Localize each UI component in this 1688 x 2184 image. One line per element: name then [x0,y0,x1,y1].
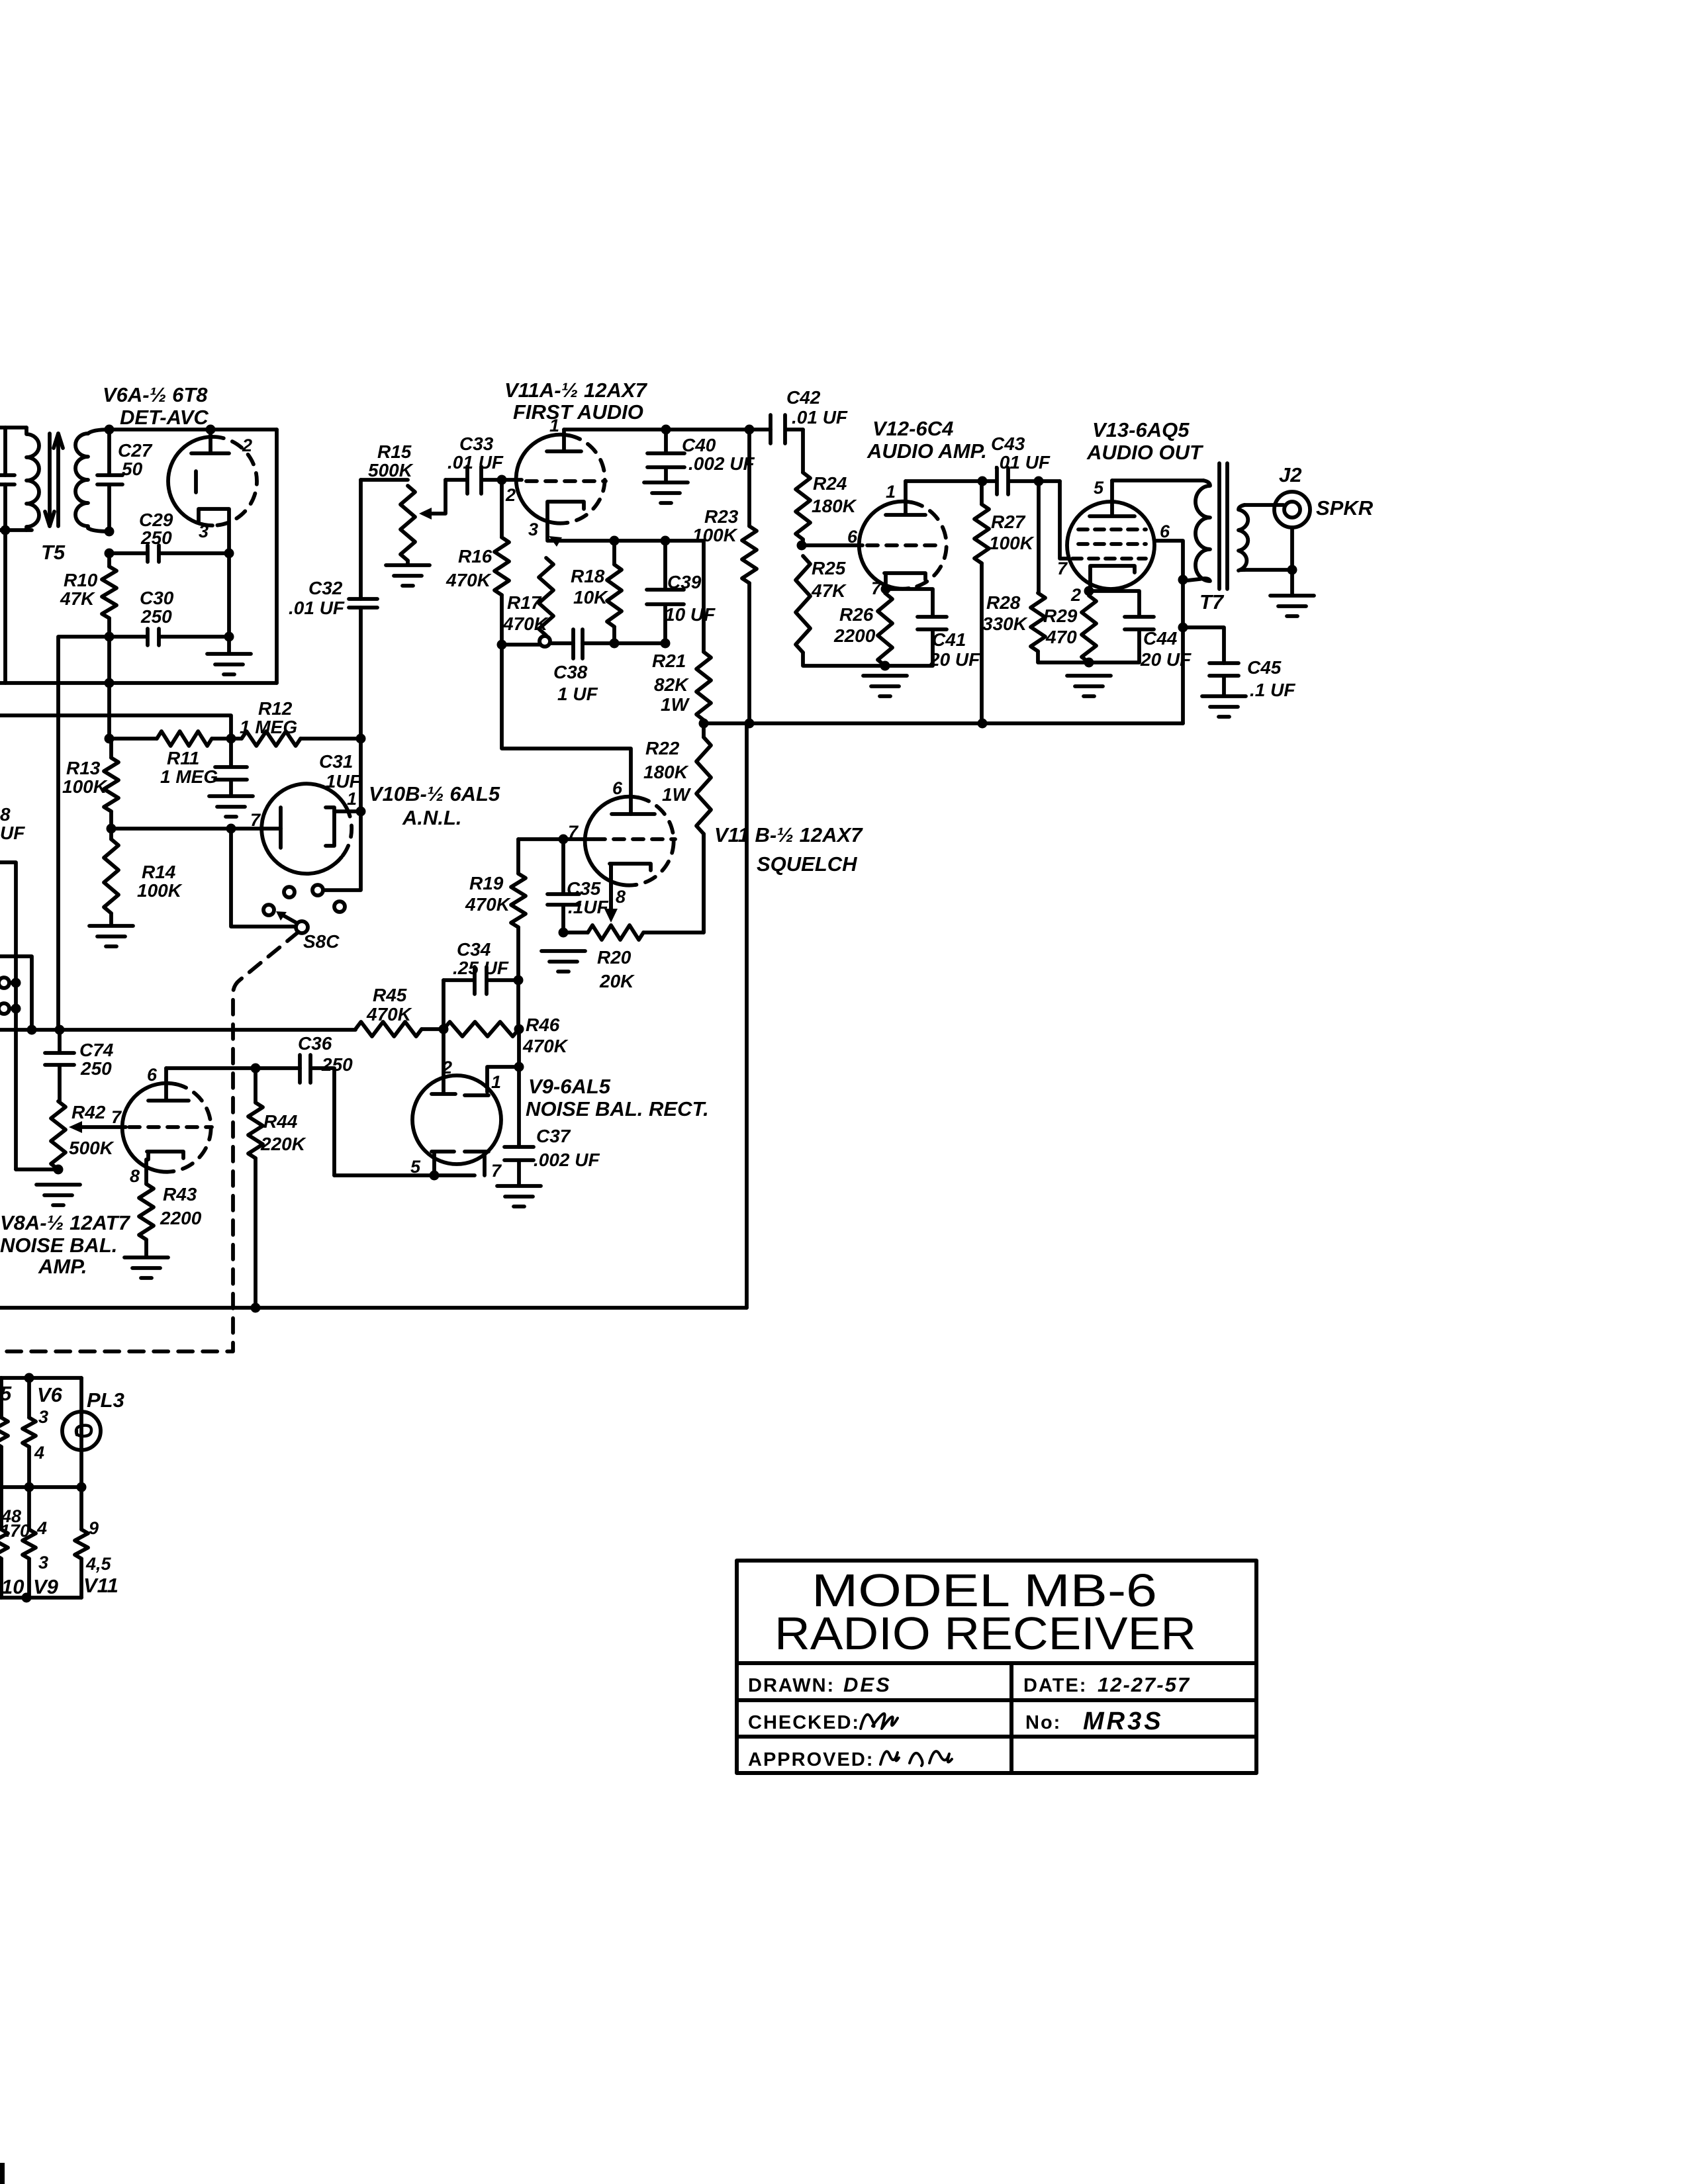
svg-text:7: 7 [1057,559,1068,578]
svg-text:1W: 1W [661,694,690,715]
svg-text:1: 1 [886,482,896,502]
wire V6A box right [275,430,279,683]
wire pin2 V9 [442,1029,445,1093]
scan mark bottom-left corner [0,2163,5,2184]
contact circle [539,636,550,647]
resistor R46 [444,1022,519,1036]
resistor R11 [109,731,242,746]
svg-text:4: 4 [34,1443,44,1463]
wire [231,829,296,927]
node [251,1064,261,1073]
svg-text:100K: 100K [989,533,1035,553]
svg-text:DET-AVC: DET-AVC [120,406,209,429]
node [22,1593,32,1603]
capacitor C37 [504,1147,534,1185]
wire [517,1029,521,1147]
svg-text:V12-6C4: V12-6C4 [872,417,953,440]
resistor R13 [104,739,118,829]
wire AVC line [58,637,109,1030]
wire [361,478,408,482]
svg-text:R45: R45 [373,985,407,1005]
svg-text:No:: No: [1025,1712,1061,1733]
capacitor (cut off at left edge) [0,475,15,484]
svg-text:170: 170 [0,1521,30,1541]
svg-text:2: 2 [442,1058,452,1077]
svg-text:C33: C33 [459,433,494,454]
tube V12 [859,481,947,589]
node [661,639,671,649]
node [55,1025,65,1035]
svg-text:C37: C37 [536,1126,571,1146]
svg-text:R28: R28 [986,592,1021,613]
tube V8A [122,1068,212,1184]
node [745,425,755,435]
jack J2 [1274,492,1310,527]
svg-text:C31: C31 [319,751,353,772]
svg-text:470: 470 [1045,627,1077,647]
node [1178,575,1188,585]
node [224,632,234,642]
svg-text:4: 4 [36,1518,47,1538]
node [497,475,507,485]
tube V9 [412,1075,501,1175]
resistor R18 [607,541,622,644]
lamp PL3 [62,1378,101,1487]
svg-text:2: 2 [242,435,252,455]
svg-text:100K: 100K [137,880,183,901]
resistor R14 [104,829,118,925]
ground [644,482,688,503]
resistor R15 pot [400,480,445,564]
wire pin7 V10B [111,827,281,831]
svg-text:.25 UF: .25 UF [453,958,509,978]
wire V6A box top [109,428,277,432]
svg-text:C34: C34 [457,939,491,960]
svg-text:S8C: S8C [303,931,340,952]
resistor R22 [696,723,711,933]
resistor R44 [248,1068,263,1308]
title block divider [737,1735,1256,1739]
svg-text:SQUELCH: SQUELCH [757,852,857,876]
svg-text:.01 UF: .01 UF [994,452,1051,473]
svg-text:5: 5 [1094,478,1104,498]
svg-text:10: 10 [1,1575,24,1598]
svg-text:9: 9 [89,1518,99,1538]
resistor R17 [539,558,553,635]
svg-text:R44: R44 [263,1111,298,1132]
wire [227,553,231,653]
wire [0,715,231,739]
svg-text:V9-6AL5: V9-6AL5 [528,1075,611,1098]
ground [207,654,251,674]
wire cathode bottom row [502,643,665,645]
svg-text:V11: V11 [83,1574,118,1597]
capacitor C32 [349,599,377,608]
node [514,1024,524,1034]
ground [89,926,133,946]
signature [861,1713,898,1729]
resistor R12 [242,731,361,746]
node [514,1062,524,1072]
svg-text:V6: V6 [37,1383,63,1406]
node [226,824,236,834]
svg-text:C27: C27 [118,440,153,461]
svg-text:20K: 20K [599,971,635,991]
svg-text:1 MEG: 1 MEG [240,717,297,737]
svg-text:C38: C38 [553,662,588,682]
resistor R42 pot [51,1101,126,1169]
svg-text:500K: 500K [368,460,414,480]
title block divider [1009,1663,1013,1773]
svg-text:.1UF: .1UF [568,897,609,917]
node [610,536,620,546]
svg-text:C44: C44 [1143,628,1178,649]
wire down to B+ row [1181,627,1185,723]
svg-text:470K: 470K [445,570,492,590]
tube V10B [261,784,361,874]
capacitor C30 [109,629,229,645]
transformer T5 [26,428,109,531]
svg-text:5: 5 [0,1382,12,1405]
wire pin7 grid feed [1060,481,1068,559]
wire pin6 grid [802,543,863,547]
svg-text:R25: R25 [812,558,846,578]
heater V6 [23,1378,36,1487]
svg-text:V11 B-½ 12AX7: V11 B-½ 12AX7 [714,823,863,846]
node [105,632,115,642]
wire plate to T7 [1112,478,1203,482]
svg-text:AUDIO OUT: AUDIO OUT [1086,441,1204,464]
capacitor C34 [444,967,518,994]
wire V6A box bottom [0,681,277,685]
svg-text:UF: UF [0,823,25,843]
ground [386,565,430,586]
wire primary bottom to C45 [1183,580,1224,663]
node [11,978,21,988]
node [439,1024,449,1034]
wire pin5 row [334,1173,475,1177]
node [251,1303,261,1313]
capacitor C40 [647,430,684,481]
wire pin7 row [518,837,594,841]
svg-text:47K: 47K [811,580,847,601]
capacitor C43 [982,468,1060,494]
node [1,525,11,535]
wire heater rail 3 [0,1596,81,1600]
svg-text:.002 UF: .002 UF [688,453,755,474]
svg-text:470K: 470K [522,1036,569,1056]
svg-text:DRAWN:: DRAWN: [748,1675,835,1696]
wire heater rail [0,1376,81,1380]
wire [444,980,518,1028]
title block frame [737,1561,1256,1773]
node [880,661,890,671]
capacitor C74 [45,1030,74,1101]
resistor R26 [878,593,892,666]
node [881,584,891,594]
wire squelch vertical [745,723,749,1308]
node [559,928,569,938]
svg-text:MR3S: MR3S [1083,1707,1164,1735]
resistor R43 [139,1184,154,1256]
svg-text:R16: R16 [458,546,492,567]
capacitor C27 [97,430,122,531]
svg-text:8: 8 [130,1166,140,1186]
svg-text:J2: J2 [1279,463,1301,486]
resistor R20 pot [563,834,704,940]
node [105,549,115,559]
svg-text:NOISE BAL.: NOISE BAL. [0,1234,117,1257]
svg-text:C43: C43 [991,433,1025,454]
ground [124,1257,168,1278]
svg-text:6: 6 [147,1065,158,1085]
wire secondary top [1244,503,1284,507]
node [27,1025,37,1035]
node [356,807,366,817]
tube V11A [516,430,606,539]
svg-text:T5: T5 [41,541,66,564]
svg-text:PL3: PL3 [87,1388,124,1412]
wire cathode row [547,539,704,543]
svg-text:AMP.: AMP. [38,1255,87,1278]
svg-text:C40: C40 [682,435,716,455]
capacitor C31 [215,739,247,795]
node [1084,658,1094,668]
svg-text:R21: R21 [652,651,686,671]
node [11,1004,21,1014]
svg-text:1 MEG: 1 MEG [160,766,218,787]
svg-text:6: 6 [847,527,858,547]
wire [0,426,26,430]
svg-text:R15: R15 [377,441,412,462]
node [105,678,115,688]
resistor R10 [102,553,117,637]
wire heater rail 2 [0,1485,81,1489]
node [797,541,807,551]
svg-text:10 UF: 10 UF [665,604,716,625]
svg-text:R46: R46 [526,1015,560,1035]
svg-text:C35: C35 [567,878,601,899]
svg-text:T7: T7 [1199,590,1225,614]
node [24,1373,34,1383]
wire [323,739,361,890]
svg-text:R11: R11 [167,748,199,768]
wire pin1 V9 [487,1067,519,1092]
svg-text:1 UF: 1 UF [557,684,598,704]
svg-text:R12: R12 [258,698,293,719]
svg-text:V9: V9 [33,1575,59,1598]
dashed switch link [0,932,299,1351]
capacitor C41 [885,589,947,666]
svg-text:.01 UF: .01 UF [447,452,504,473]
svg-text:4,5: 4,5 [85,1554,112,1574]
svg-text:C45: C45 [1247,657,1282,678]
node [497,640,507,650]
svg-text:3: 3 [199,522,209,541]
node [107,824,117,834]
svg-text:C30: C30 [140,588,174,608]
node [661,536,671,546]
svg-text:R42: R42 [71,1102,106,1122]
node [1288,565,1297,575]
transformer T7 [1188,463,1248,589]
resistor R24 [796,430,810,545]
svg-text:CHECKED:: CHECKED: [748,1712,860,1733]
ground [541,951,585,972]
node [978,477,988,486]
heater V9 [23,1487,36,1598]
svg-text:R17: R17 [507,592,542,613]
wire [107,637,111,739]
svg-text:8: 8 [616,887,626,907]
svg-text:.01 UF: .01 UF [792,407,848,428]
wire [0,528,32,532]
svg-text:180K: 180K [643,762,689,782]
svg-text:SPKR: SPKR [1316,496,1374,520]
wire [422,1027,444,1031]
svg-text:47K: 47K [60,588,95,609]
svg-text:R43: R43 [163,1184,197,1205]
svg-text:R19: R19 [469,873,504,893]
capacitor C44 [1089,591,1154,662]
svg-text:1: 1 [347,789,357,809]
capacitor C42 [771,415,803,443]
svg-text:10K: 10K [573,587,608,608]
svg-text:C42: C42 [786,387,821,408]
svg-text:2: 2 [505,485,516,505]
wire [3,428,7,683]
svg-text:FIRST AUDIO: FIRST AUDIO [513,400,643,424]
wire B+ row [704,721,1183,725]
svg-text:470K: 470K [366,1004,412,1024]
svg-text:100K: 100K [692,525,738,545]
svg-text:C39: C39 [667,572,702,592]
svg-text:R26: R26 [839,604,874,625]
tube V6A [168,430,257,553]
node [699,719,709,729]
node [610,639,620,649]
resistor R21 [696,541,711,723]
svg-text:3: 3 [38,1553,48,1572]
svg-text:100K: 100K [62,776,108,797]
wiper arrow [549,536,562,547]
resistor R28 [1031,481,1089,662]
node [105,734,115,744]
resistor R25 [796,556,885,666]
node [514,976,524,985]
svg-text:C41: C41 [932,629,966,650]
svg-text:RADIO RECEIVER: RADIO RECEIVER [774,1608,1196,1659]
svg-text:12-27-57: 12-27-57 [1098,1673,1190,1696]
svg-text:AUDIO AMP.: AUDIO AMP. [867,439,987,463]
svg-text:20 UF: 20 UF [929,649,980,670]
svg-text:82K: 82K [654,674,689,695]
node [77,1482,87,1492]
svg-text:R20: R20 [597,947,632,968]
node [661,425,671,435]
svg-text:R22: R22 [645,738,680,758]
svg-text:7: 7 [111,1107,122,1127]
wire plate top [564,428,771,432]
ground [1270,596,1314,616]
wire pin6 row [166,1066,300,1070]
svg-text:220K: 220K [260,1134,306,1154]
svg-text:8: 8 [0,804,11,825]
node [226,734,236,744]
svg-text:C32: C32 [308,578,343,598]
ground [36,1185,80,1205]
node [1034,477,1044,486]
contact circle [0,978,16,988]
capacitor C39 [647,541,684,644]
node [105,527,115,537]
ground [497,1186,541,1206]
ground [209,796,253,817]
svg-text:470K: 470K [502,614,549,634]
svg-text:C74: C74 [79,1040,114,1060]
svg-text:50: 50 [122,459,143,479]
svg-text:DES: DES [843,1673,892,1696]
node [24,1482,34,1492]
svg-text:V13-6AQ5: V13-6AQ5 [1092,418,1190,441]
node [224,549,234,559]
svg-text:3: 3 [38,1407,48,1427]
resistor R27 [974,481,989,723]
svg-text:NOISE BAL. RECT.: NOISE BAL. RECT. [526,1097,709,1120]
svg-text:R18: R18 [571,566,605,586]
svg-text:.002 UF: .002 UF [534,1150,600,1170]
svg-text:250: 250 [80,1058,112,1079]
resistor R29 [1082,596,1096,662]
svg-text:2: 2 [1070,585,1081,605]
signature [880,1751,952,1766]
svg-text:V11A-½ 12AX7: V11A-½ 12AX7 [504,379,648,402]
node [54,1165,64,1175]
resistor R45 [355,1022,422,1036]
svg-text:1: 1 [491,1072,501,1092]
wire left riser [0,862,16,1169]
svg-text:.01 UF: .01 UF [289,598,345,618]
svg-text:V10B-½ 6AL5: V10B-½ 6AL5 [369,782,500,805]
heater V5 (cut off) [0,1378,8,1598]
switch S8C [263,885,345,933]
ground [863,676,907,696]
svg-text:6: 6 [1160,522,1170,541]
node [430,1171,440,1181]
svg-text:R23: R23 [704,506,739,527]
svg-text:DATE:: DATE: [1023,1675,1087,1696]
svg-text:250: 250 [140,606,172,627]
node [978,719,988,729]
svg-text:V8A-½ 12AT7: V8A-½ 12AT7 [0,1211,131,1234]
svg-text:R29: R29 [1043,606,1078,626]
svg-text:R10: R10 [64,570,98,590]
svg-text:APPROVED:: APPROVED: [748,1749,874,1770]
svg-text:2200: 2200 [833,625,876,646]
wire C32 column [359,480,363,739]
svg-text:180K: 180K [812,496,857,516]
capacitor C29 [109,545,229,562]
wire long row [0,1028,355,1032]
svg-text:7: 7 [491,1161,502,1181]
capacitor C33 [445,467,522,494]
resistor R19 [511,839,526,980]
tube V13 [1067,480,1154,591]
capacitor C45 [1209,663,1239,695]
svg-text:250: 250 [140,527,172,548]
svg-text:.1 UF: .1 UF [1250,680,1295,700]
svg-text:R13: R13 [66,758,101,778]
